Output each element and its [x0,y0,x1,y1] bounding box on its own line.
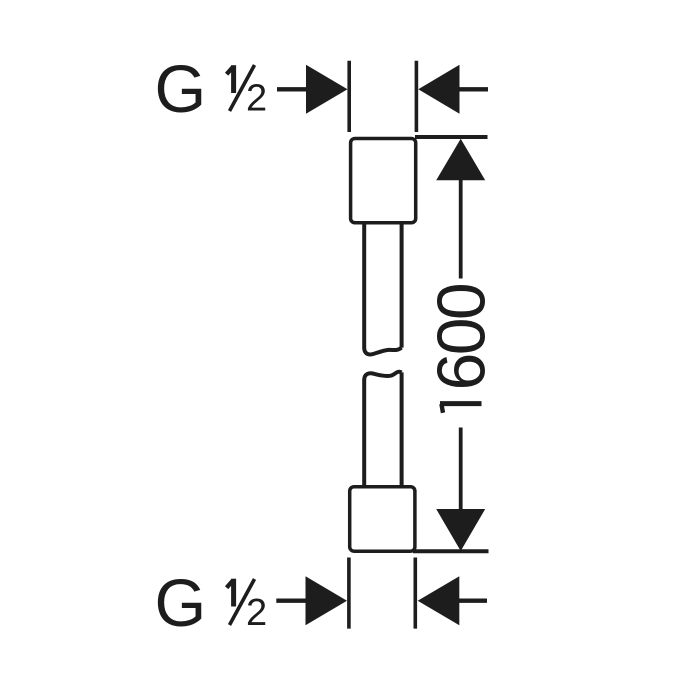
top fraction numerator 1 [227,65,234,93]
svg-text:G: G [155,567,207,641]
top left arrowhead pointing right [306,65,348,114]
dim extension line top [415,135,488,139]
top G1/2 leader line [277,87,307,91]
top right arrow tail [459,87,489,91]
bottom G1/2 leader line [276,599,306,603]
dimension line upper segment [459,179,463,279]
hose lower segment right wall [400,372,404,487]
bottom connector rectangle [350,487,415,552]
bottom extension line right [413,558,417,629]
top extension line left [347,61,351,132]
svg-text:600: 600 [424,284,500,390]
dim extension line bottom [413,549,489,553]
top fraction slash [230,65,255,111]
svg-text:G: G [155,53,207,127]
dimension line lower segment [459,428,463,511]
dim arrowhead down [436,509,485,551]
svg-text:2: 2 [246,592,267,634]
dim arrowhead up [436,139,485,181]
bottom extension line left [347,558,351,629]
hose upper segment left wall [362,223,366,349]
svg-text:2: 2 [246,78,267,120]
bottom left arrowhead pointing right [306,576,348,625]
bottom right arrow tail [459,599,488,603]
top right arrowhead pointing left [418,65,459,114]
dimension digit 1 [440,404,482,413]
bottom fraction slash [230,579,255,625]
hose lower break wave [364,372,401,379]
bottom right arrowhead pointing left [418,576,460,625]
hose lower segment left wall [362,379,366,487]
hose upper break wave [364,348,401,355]
hose upper segment right wall [400,223,404,348]
bottom fraction numerator 1 [227,579,234,607]
top extension line right [415,61,419,132]
top connector rectangle [351,139,416,223]
